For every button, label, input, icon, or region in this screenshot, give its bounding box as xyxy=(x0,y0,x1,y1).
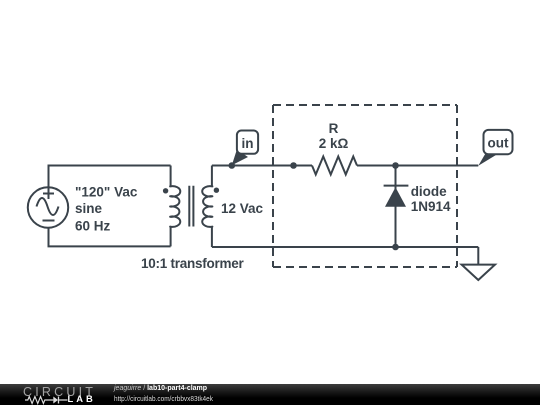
voltage source sine wave xyxy=(37,198,59,215)
junction dot diode top xyxy=(392,162,399,169)
ground symbol triangle xyxy=(462,265,495,280)
footer logo mini circuit glyph xyxy=(25,395,68,405)
svg-text:"120" Vac: "120" Vac xyxy=(75,185,138,200)
svg-text:10:1 transformer: 10:1 transformer xyxy=(141,256,245,271)
wire left-loop bottom xyxy=(49,228,171,247)
dashed clamp box xyxy=(273,104,457,106)
wire left-loop top xyxy=(49,166,171,188)
footer logo word LAB xyxy=(68,393,96,404)
net flag in tail xyxy=(232,150,248,166)
wire ground stem xyxy=(477,247,479,265)
transformer T1 secondary winding xyxy=(202,186,212,227)
voltage source V1 circle xyxy=(28,187,68,227)
footer title text xyxy=(114,383,207,392)
svg-text:out: out xyxy=(488,136,509,151)
voltage source plus sign xyxy=(43,188,54,199)
transformer T1 secondary lead top xyxy=(211,166,213,187)
voltage source minus sign xyxy=(43,220,55,222)
net flag in box xyxy=(237,131,258,154)
transformer T1 core bars xyxy=(189,186,193,227)
svg-text:diode: diode xyxy=(411,184,447,199)
junction dot diode bottom xyxy=(392,244,399,251)
svg-text:sine: sine xyxy=(75,201,103,216)
svg-text:R: R xyxy=(329,121,339,136)
svg-text:60 Hz: 60 Hz xyxy=(75,219,111,234)
svg-text:in: in xyxy=(242,136,254,151)
diode D1 vertical wire xyxy=(395,166,397,248)
svg-text:2 kΩ: 2 kΩ xyxy=(319,136,349,151)
footer logo word CIRCUIT xyxy=(23,385,96,399)
transformer T1 primary lead top xyxy=(170,166,172,187)
net flag out tail xyxy=(478,154,498,166)
diode D1 cathode bar xyxy=(384,185,409,187)
junction dot on in wire xyxy=(229,162,236,169)
junction dot left of resistor xyxy=(290,162,297,169)
transformer T1 primary winding xyxy=(170,186,180,227)
transformer T1 primary lead bottom xyxy=(170,227,172,247)
net flag out box xyxy=(484,130,513,154)
wire secondary top to resistor xyxy=(212,165,312,167)
footer black bar xyxy=(0,384,540,405)
svg-text:1N914: 1N914 xyxy=(411,199,451,214)
transformer T1 secondary lead bottom xyxy=(211,227,213,247)
wire resistor to out xyxy=(357,165,478,167)
transformer primary phase dot xyxy=(163,188,168,193)
wire bottom net xyxy=(212,246,478,248)
diode D1 triangle xyxy=(385,187,406,207)
transformer secondary phase dot xyxy=(214,188,219,193)
footer url text xyxy=(114,394,213,403)
resistor R zigzag xyxy=(312,157,357,175)
svg-text:12 Vac: 12 Vac xyxy=(221,201,264,216)
